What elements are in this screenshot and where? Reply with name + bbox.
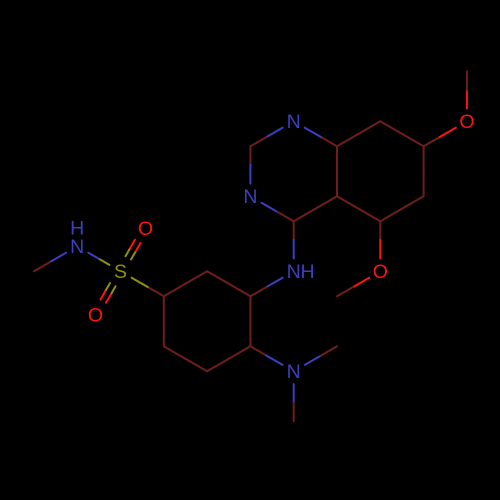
double bond S=O lower (101, 283, 116, 303)
svg-text:N: N (243, 186, 257, 208)
bond C4a-C8a (336, 146, 338, 196)
bond C8a-C8 (337, 121, 380, 146)
bond C5-C6 benzene (164, 271, 207, 296)
bond C4-C5 benzene (163, 296, 165, 346)
bond C8a-N1 (305, 128, 337, 147)
atom label O (top methoxy) (459, 111, 474, 133)
bond NH-C1 (250, 278, 282, 297)
bond C2-N3 (249, 146, 251, 183)
atom label O (sulfonyl lower) (88, 304, 103, 326)
atom label O (lower methoxy) (373, 261, 388, 283)
atom label N3 (quinazoline) (243, 186, 257, 208)
svg-text:N: N (287, 261, 301, 283)
bond C2-N dimethylamino (250, 346, 282, 365)
bond S-N (88, 253, 109, 265)
svg-text:O: O (138, 218, 153, 240)
atom label N-H (sulfonamide) (70, 217, 84, 258)
bond O5-CH3 (337, 278, 369, 297)
bond C7-C6 (423, 146, 425, 196)
atom label S (sulfonyl) (114, 261, 127, 283)
bond C8-C7 (380, 121, 423, 146)
atom label N (dimethylamino) (287, 361, 301, 383)
bond C5-O5 (379, 221, 381, 258)
bond N-CH3 right (305, 346, 337, 365)
atom label N1 (quinazoline) (287, 111, 301, 133)
svg-text:N: N (287, 361, 301, 383)
svg-text:O: O (88, 304, 103, 326)
atom label NH (anilino) (287, 261, 315, 283)
bond C6-C1 benzene (207, 271, 250, 296)
bond C1-C2 benzene (249, 296, 251, 346)
bond C7-O7 (424, 128, 456, 147)
svg-text:H: H (300, 261, 314, 283)
bond N1-C2 (250, 128, 282, 147)
bond C4-NH (293, 221, 295, 258)
bond C6-C5 (380, 196, 423, 221)
bond C5-S (132, 278, 164, 297)
svg-text:N: N (287, 111, 301, 133)
svg-text:H: H (70, 217, 84, 239)
svg-text:O: O (373, 261, 388, 283)
svg-text:O: O (459, 111, 474, 133)
bond O7-CH3 (466, 71, 468, 108)
bond N3-C4 (262, 203, 294, 222)
svg-text:S: S (114, 261, 127, 283)
double bond S=O upper (126, 240, 141, 260)
atom label O (sulfonyl upper) (138, 218, 153, 240)
bond N-CH3 methyl (34, 253, 66, 272)
bond N-CH3 down (293, 384, 295, 421)
bond C2-C3 benzene (207, 346, 250, 371)
bond C3-C4 benzene (164, 346, 207, 371)
bond C4-C4a (294, 196, 337, 221)
bond C5-C4a (337, 196, 380, 221)
